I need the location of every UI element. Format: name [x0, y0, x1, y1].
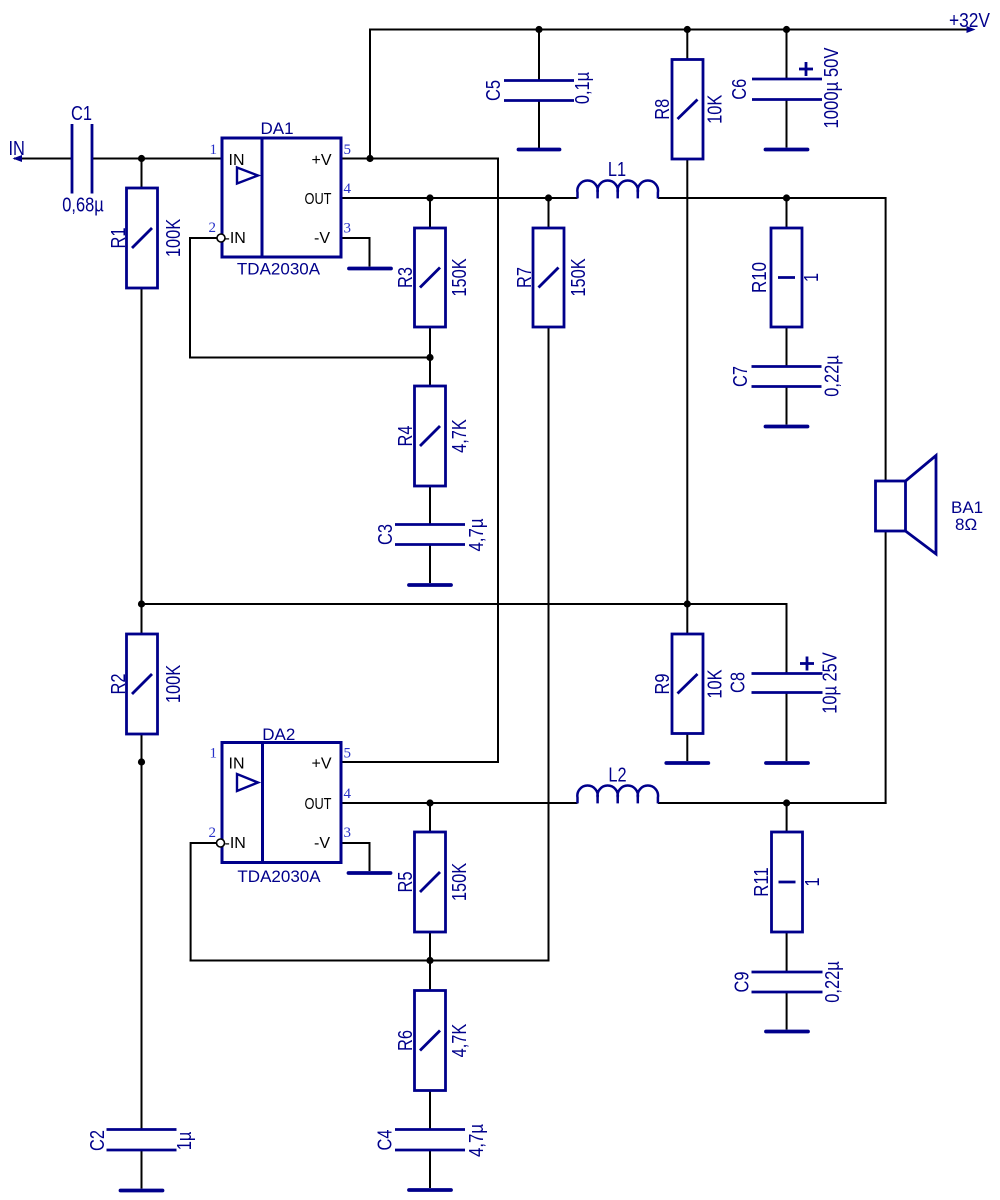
wire R5 bottom to feedback node: [429, 930, 431, 961]
wire DA2 feedback horizontal: [190, 960, 550, 962]
svg-text:TDA2030A: TDA2030A: [237, 260, 321, 279]
svg-text:C5: C5: [483, 80, 505, 101]
capacitor C8: [752, 657, 823, 693]
ground under C9: [766, 1030, 808, 1034]
ground under C2: [121, 1189, 163, 1193]
svg-text:R9: R9: [652, 674, 674, 695]
wire R7 top stub: [548, 198, 550, 230]
wire R3 bottom to R4 top: [429, 325, 431, 388]
wire DA1 pin3 ground drop: [369, 237, 371, 267]
svg-text:1µ: 1µ: [174, 1131, 196, 1150]
svg-text:C3: C3: [375, 524, 397, 545]
svg-text:C2: C2: [87, 1130, 109, 1151]
ground under C4: [409, 1188, 451, 1192]
svg-text:1: 1: [210, 746, 218, 762]
wire DA2 pin3 ground drop: [369, 842, 371, 871]
svg-text:IN: IN: [229, 756, 245, 773]
wire DA2 OUT to L2: [341, 802, 578, 804]
svg-text:-IN: -IN: [225, 230, 246, 247]
svg-text:R5: R5: [395, 872, 417, 893]
node R2 DA2 pin1 junction: [138, 758, 145, 765]
wire DA1 pin2 stub: [190, 237, 217, 239]
svg-text:L1: L1: [608, 159, 626, 181]
svg-text:R11: R11: [751, 867, 773, 897]
svg-text:C1: C1: [71, 103, 92, 125]
wire bias line node A2 to C8 corner: [142, 603, 787, 605]
node rail C5 junction: [535, 26, 542, 33]
wire L1 to speaker corner: [658, 197, 886, 199]
svg-text:1000µ 50V: 1000µ 50V: [821, 47, 843, 129]
wire R6 top stub: [429, 961, 431, 993]
svg-text:2: 2: [209, 220, 217, 236]
svg-text:R6: R6: [395, 1030, 417, 1051]
node L1 out R10 junction: [783, 194, 790, 201]
wire +V vertical to DA2 pin5: [497, 158, 499, 763]
svg-text:C4: C4: [375, 1130, 397, 1151]
svg-text:150K: 150K: [568, 258, 590, 297]
node rail R8 junction: [684, 26, 691, 33]
ground under DA2 pin3: [349, 871, 391, 875]
op-amp U DA1 box: [222, 138, 341, 257]
wire R10 bottom to C7: [786, 325, 788, 367]
node DA2 OUT R5 junction: [426, 799, 433, 806]
svg-text:R3: R3: [395, 267, 417, 288]
wire speaker vertical bottom: [885, 530, 887, 804]
svg-text:10K: 10K: [705, 94, 727, 124]
svg-text:2: 2: [209, 825, 217, 841]
svg-text:4: 4: [344, 181, 352, 197]
svg-text:C9: C9: [732, 972, 754, 993]
ground under C3: [409, 583, 451, 587]
svg-text:C6: C6: [729, 79, 751, 100]
resistor R8: [672, 60, 703, 160]
wire R5 top stub: [429, 803, 431, 834]
wire node A down R1 R2 column to C2: [141, 159, 143, 191]
resistor R7: [533, 228, 564, 327]
svg-text:0,68µ: 0,68µ: [62, 195, 104, 217]
resistor R11: [772, 832, 803, 932]
wire R8 bottom through crossing to R9 top: [686, 157, 688, 636]
ground under C6: [766, 148, 808, 152]
wire R9 bottom to ground: [686, 731, 688, 761]
wire speaker vertical top: [885, 197, 887, 482]
svg-text:0,1µ: 0,1µ: [572, 72, 594, 105]
wire DA1 +V pin5 to corner: [341, 158, 498, 160]
svg-text:C7: C7: [730, 366, 752, 387]
op-amp DA1 pin2 inverting circle: [217, 234, 225, 242]
wire DA2 pin3 stub: [341, 842, 370, 844]
wire IN to C1 left plate: [14, 158, 72, 160]
node R1 R2 bias junction: [138, 600, 145, 607]
wire C5 bottom to ground: [538, 101, 540, 149]
op-amp DA2 pin2 inverting circle: [217, 839, 225, 847]
wire R11 top stub: [786, 803, 788, 834]
wire R3 top stub: [429, 198, 431, 230]
ground under C5: [519, 148, 560, 152]
node R3 R4 feedback junction: [426, 354, 433, 361]
wire DA1 feedback horizontal to R3 R4 node: [189, 357, 430, 359]
wire R7 bottom to DA2 feedback corner: [548, 325, 550, 962]
wire C1 right plate to DA1 pin1: [92, 158, 222, 160]
capacitor C7: [752, 367, 822, 387]
svg-text:5: 5: [344, 142, 352, 158]
svg-text:OUT: OUT: [305, 191, 332, 208]
svg-text:3: 3: [344, 221, 352, 237]
node DA1 OUT R7 junction: [545, 194, 552, 201]
wire R6 bottom to C4: [429, 1089, 431, 1130]
svg-text:5: 5: [344, 746, 352, 762]
svg-text:+V: +V: [311, 152, 331, 169]
wire DA1 feedback vertical: [189, 237, 191, 359]
svg-text:1: 1: [801, 273, 823, 282]
wire DA2 +V pin5 horizontal: [341, 761, 499, 763]
resistor R3: [415, 228, 446, 327]
resistor R1: [127, 188, 158, 288]
svg-text:4,7µ: 4,7µ: [466, 1124, 488, 1157]
speaker BA1: [876, 456, 937, 555]
svg-text:IN: IN: [229, 152, 245, 169]
resistor R5: [415, 832, 446, 932]
resistor R6: [415, 991, 446, 1091]
wire DA2 feedback vertical: [190, 842, 192, 962]
svg-text:8Ω: 8Ω: [955, 515, 977, 534]
svg-text:R7: R7: [514, 267, 536, 288]
resistor R4: [415, 386, 446, 486]
wire DA1 OUT to L1: [341, 197, 578, 199]
ground under C7: [766, 425, 808, 429]
capacitor C9: [752, 972, 823, 992]
inductor L1: [577, 181, 658, 199]
capacitor C2: [107, 1130, 177, 1151]
svg-text:DA1: DA1: [260, 119, 293, 138]
svg-text:R8: R8: [652, 99, 674, 120]
svg-text:4,7K: 4,7K: [449, 419, 471, 453]
node R8 R9 divider junction: [684, 600, 691, 607]
ground under C8: [766, 761, 808, 765]
wire C8 bottom to ground: [786, 693, 788, 762]
wire R10 top stub: [786, 198, 788, 230]
wire R11 bottom to C9: [786, 930, 788, 972]
wire +V rail riser: [369, 30, 371, 159]
svg-text:150K: 150K: [449, 862, 471, 901]
svg-text:TDA2030A: TDA2030A: [237, 867, 321, 886]
wire C3 to ground: [429, 545, 431, 584]
svg-text:0,22µ: 0,22µ: [822, 961, 844, 1003]
wire C5 top stub: [538, 30, 540, 81]
svg-text:R10: R10: [749, 262, 771, 293]
svg-text:R1: R1: [108, 228, 130, 249]
svg-text:4: 4: [344, 786, 352, 802]
capacitor C3: [395, 525, 465, 545]
resistor R9: [672, 634, 703, 734]
node DA1 +V rail junction: [366, 155, 373, 162]
svg-text:R2: R2: [108, 674, 130, 695]
svg-text:100K: 100K: [163, 664, 185, 703]
wire DA1 pin3 stub: [341, 237, 370, 239]
op-amp DA2 triangle: [237, 774, 258, 791]
node L2 out R11 junction: [783, 799, 790, 806]
resistor R10: [771, 228, 802, 327]
wire C9 bottom to ground: [786, 992, 788, 1030]
wire R8 top stub: [686, 30, 688, 62]
svg-text:-V: -V: [314, 835, 330, 852]
wire C6 top stub: [786, 30, 788, 80]
svg-text:DA2: DA2: [262, 725, 295, 744]
svg-text:150K: 150K: [449, 258, 471, 297]
port arrow IN: [13, 155, 23, 162]
svg-text:L2: L2: [608, 765, 626, 787]
svg-text:1: 1: [210, 142, 218, 158]
inductor L2: [577, 786, 658, 804]
ground under R9: [666, 761, 708, 765]
capacitor C5: [504, 81, 574, 101]
svg-text:C8: C8: [728, 672, 750, 693]
svg-text:3: 3: [344, 825, 352, 841]
wire DA2 pin2 stub: [191, 842, 216, 844]
wire C8 riser: [786, 603, 788, 674]
wire C7 to ground: [786, 387, 788, 425]
wire R1 bottom to bias node: [141, 286, 143, 636]
capacitor C4: [395, 1130, 465, 1151]
resistor R2: [127, 634, 158, 734]
capacitor C1: [72, 124, 92, 194]
wire C2 bottom plate to ground: [141, 1150, 143, 1189]
svg-text:IN: IN: [9, 138, 25, 160]
svg-text:1: 1: [802, 878, 824, 887]
wire C6 bottom to ground: [786, 100, 788, 148]
svg-text:OUT: OUT: [305, 796, 332, 813]
svg-text:R4: R4: [395, 426, 417, 447]
node rail C6 junction: [783, 26, 790, 33]
svg-text:+V: +V: [311, 756, 331, 773]
svg-text:+32V: +32V: [949, 10, 991, 32]
wire L2 to speaker corner: [658, 802, 887, 804]
op-amp U DA2 box: [222, 743, 341, 863]
svg-text:10K: 10K: [705, 669, 727, 699]
svg-text:100K: 100K: [163, 218, 185, 257]
svg-text:0,22µ: 0,22µ: [822, 355, 844, 397]
wire R4 bottom to C3: [429, 484, 431, 525]
svg-text:-V: -V: [314, 230, 330, 247]
svg-text:4,7µ: 4,7µ: [466, 518, 488, 551]
svg-text:10µ 25V: 10µ 25V: [820, 652, 842, 714]
svg-text:-IN: -IN: [225, 835, 246, 852]
power arrow +32V: [967, 26, 976, 33]
capacitor C6: [752, 62, 822, 100]
wire C4 bottom to ground: [429, 1150, 431, 1188]
node DA1 OUT R3 junction: [426, 194, 433, 201]
node input bias junction: [138, 155, 145, 162]
wire R2 bottom to DA2 pin1 node: [141, 732, 143, 1130]
svg-text:4,7K: 4,7K: [449, 1023, 471, 1057]
node R5 R6 feedback junction: [426, 957, 433, 964]
op-amp DA1 triangle: [237, 168, 258, 184]
wire top +32V rail: [369, 29, 968, 31]
ground under DA1 pin3: [349, 267, 391, 271]
